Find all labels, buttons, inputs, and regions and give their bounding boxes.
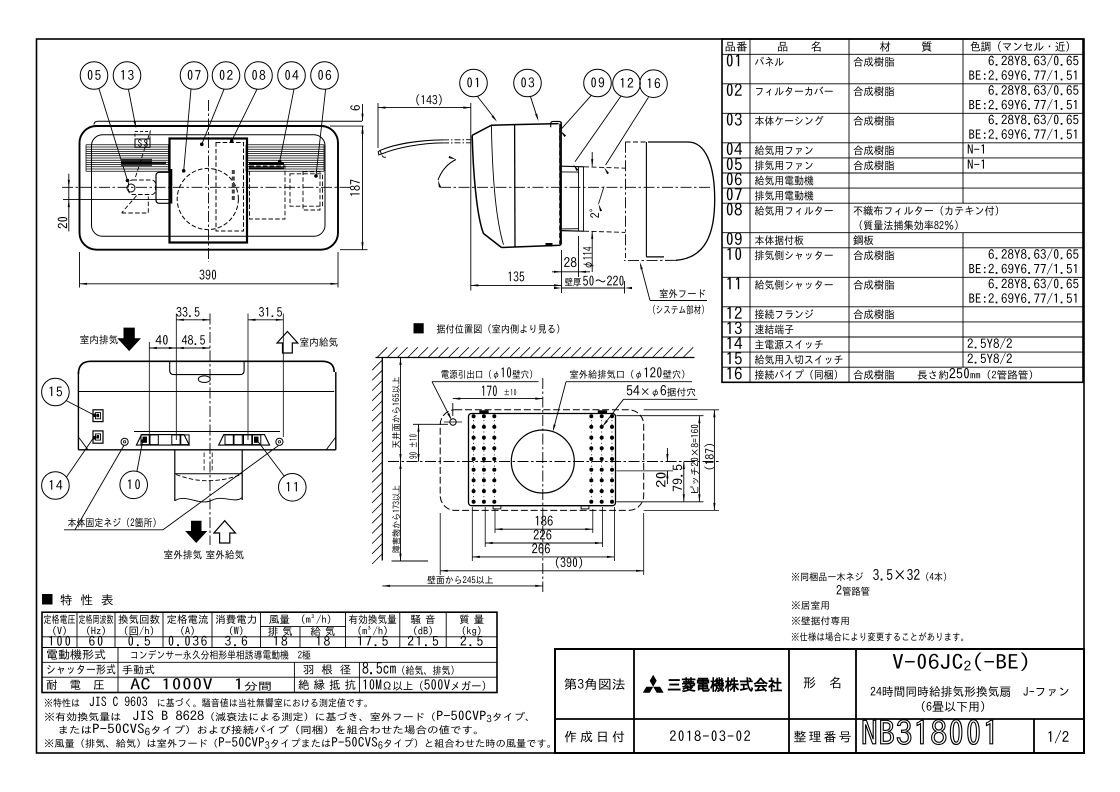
parts row 02 フィルターカバー — [727, 83, 742, 96]
shutter assemblies — [136, 435, 189, 446]
left grille — [86, 144, 169, 146]
dim 170 — [482, 385, 497, 396]
supply motor 06 dashed — [290, 174, 323, 206]
callout 01 — [460, 69, 488, 97]
title block grid — [555, 649, 1084, 753]
ceiling hatch — [376, 357, 695, 359]
dim 2 deg — [599, 187, 605, 205]
date cell — [565, 731, 624, 743]
callouts bottom view — [42, 378, 70, 406]
dim 90 — [413, 423, 448, 425]
callout 08 — [245, 62, 273, 90]
flow arrow outdoor supply — [214, 521, 236, 543]
side leaders — [478, 97, 496, 120]
parts row 16 接続パイプ（同梱） — [728, 367, 742, 380]
terminal block 13 — [135, 131, 150, 139]
bottom dims — [494, 509, 496, 533]
dim 6 — [362, 104, 364, 121]
dim 20 right — [616, 470, 673, 472]
parts row 11 給気側シャッター — [728, 277, 740, 289]
dim 187 — [340, 249, 368, 251]
callout 06 — [311, 62, 339, 90]
rotation arc — [438, 160, 456, 181]
parts row 05 排気用ファン — [727, 158, 742, 171]
model number — [893, 654, 963, 669]
parts row 04 給気用ファン — [727, 142, 742, 155]
body outline projection dashed — [440, 410, 644, 511]
callout 07 — [180, 62, 208, 90]
motor mount — [156, 172, 171, 203]
body side: panel chamfer and faces — [472, 124, 558, 136]
parts row 14 主電源スイッチ — [728, 337, 743, 349]
fan circle 07 dashed — [177, 168, 238, 229]
filter cover 02 — [170, 139, 248, 243]
centerlines mount — [542, 378, 544, 592]
parts table grid — [722, 39, 1083, 382]
drawing number cell — [794, 731, 851, 743]
fixing screws — [121, 438, 128, 445]
dim 33.5 / 31.5 — [176, 319, 210, 321]
screw hole grids — [473, 416, 475, 502]
centerline side — [440, 186, 712, 188]
flow arrow indoor exhaust — [117, 328, 141, 352]
exhaust fan 05 dashed — [129, 180, 156, 195]
parts row 12 接続フランジ — [728, 307, 742, 319]
flow arrow indoor supply — [277, 332, 298, 354]
parts row 09 本体据付板 — [727, 232, 742, 245]
dim 143 — [377, 103, 379, 148]
mitsubishi electric company name — [668, 678, 781, 692]
spec table grid — [42, 612, 497, 692]
parts row 01 パネル — [727, 54, 739, 67]
handle recess — [170, 362, 244, 375]
parts row 06 給気用電動機 — [727, 173, 742, 186]
spec notes — [45, 698, 80, 707]
parts table header — [726, 42, 747, 52]
dim ceiling 165 — [400, 358, 402, 462]
spec table values row — [49, 636, 70, 646]
hood label — [660, 289, 705, 298]
hub line — [63, 199, 170, 201]
dim 28 — [561, 250, 563, 293]
model name cell — [804, 677, 841, 689]
callout 16 — [640, 70, 668, 98]
parts row 08 給気用フィルター — [727, 203, 742, 216]
callout 02 — [212, 62, 240, 90]
dim wall 245 — [382, 585, 543, 587]
mitsubishi logo — [650, 675, 657, 687]
mounting position diagram — [414, 323, 424, 333]
leader lines front view — [99, 89, 128, 181]
duct pipe — [562, 165, 585, 168]
mounting plate top edge — [94, 121, 362, 124]
wall hatch — [381, 358, 383, 561]
flow arrow outdoor exhaust — [185, 521, 207, 543]
callout 09 — [584, 69, 612, 97]
dim wall thickness — [624, 281, 626, 294]
exhaust fan blade behind grille — [121, 159, 152, 166]
callout 13 — [113, 62, 141, 90]
label wall hole — [570, 370, 634, 379]
mounting plate — [469, 414, 616, 506]
callout 04 — [278, 62, 306, 90]
parts row 10 排気側シャッター — [728, 247, 742, 260]
duct below — [174, 451, 176, 502]
right grille — [246, 144, 324, 146]
centerlines — [62, 186, 352, 188]
dim 20 — [68, 174, 70, 232]
centerline bottom view — [209, 314, 211, 546]
dim (187) — [644, 409, 719, 411]
body outline — [80, 126, 339, 250]
label power outlet — [441, 370, 491, 379]
parts row 13 速結端子 — [728, 322, 742, 335]
dim pitch — [616, 415, 703, 417]
wall hole circle — [511, 430, 574, 493]
callout 05 — [80, 62, 108, 90]
label mounting holes — [627, 385, 640, 395]
dim ext lines — [148, 342, 150, 440]
dim phi114 — [591, 152, 593, 166]
callout 12 — [613, 70, 641, 98]
outdoor hood — [625, 142, 627, 258]
parts row 15 給気用入切スイッチ — [728, 352, 742, 364]
right notes — [792, 572, 863, 581]
power outlet hole — [450, 419, 456, 425]
callout 03 — [514, 69, 542, 97]
dim 135 — [471, 284, 562, 286]
parts row 07 排気用電動機 — [727, 188, 742, 201]
dim 79.5 — [683, 462, 685, 502]
supply fan 04 dashed — [250, 166, 286, 219]
dim 390 — [79, 252, 81, 288]
spec table header row — [44, 614, 75, 623]
dim 40 / 48.5 — [149, 347, 176, 349]
bottom view body — [78, 361, 334, 374]
spec table lower rows — [47, 649, 105, 659]
dim obstacle 173 — [400, 462, 402, 562]
mounting plate 09 with hook — [551, 121, 562, 129]
open panel flap — [380, 140, 443, 151]
switch boxes — [93, 410, 103, 422]
fixing screw label — [68, 518, 156, 528]
third angle projection cell — [564, 678, 624, 690]
parts row 03 本体ケーシング — [727, 113, 742, 126]
supply shutter dark band 04 — [249, 163, 284, 165]
spec table label — [42, 594, 53, 605]
filter 08 dashed — [216, 143, 244, 232]
